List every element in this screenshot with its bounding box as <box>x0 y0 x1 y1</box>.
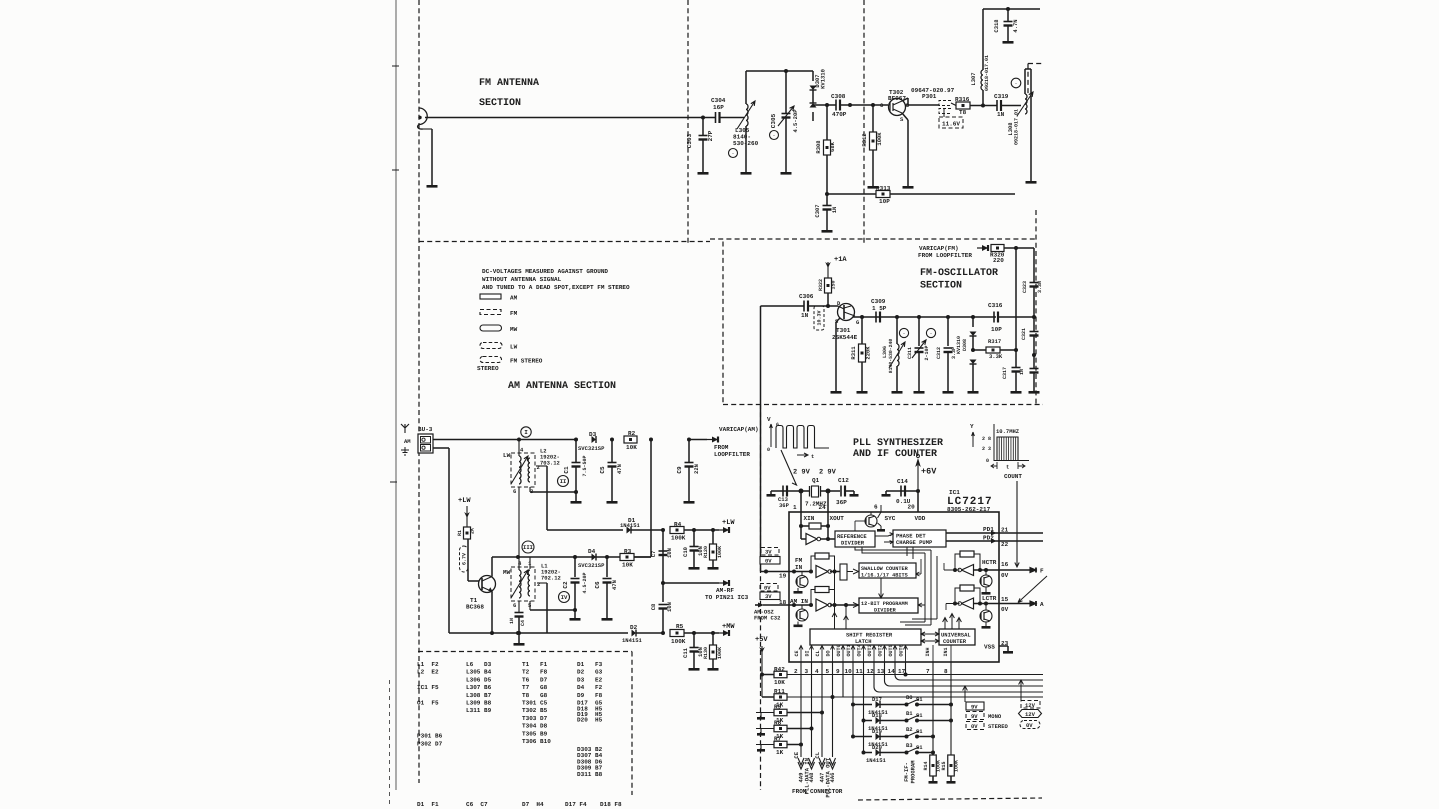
svg-text:MW: MW <box>510 326 518 333</box>
svg-text:P302 D7: P302 D7 <box>417 740 443 747</box>
svg-text:C316: C316 <box>988 302 1003 309</box>
wire: reference divider to phase detector with arrows <box>875 533 893 536</box>
svg-text:C308: C308 <box>831 93 846 100</box>
svg-text:C318: C318 <box>993 19 1000 33</box>
wire: FM antenna feed line <box>425 117 703 119</box>
svg-text:4: 4 <box>518 560 522 567</box>
ground (C14) <box>886 490 889 492</box>
svg-text:STEREO: STEREO <box>988 723 1009 730</box>
svg-text:L306 D5: L306 D5 <box>466 676 492 683</box>
svg-text:C10: C10 <box>682 547 689 557</box>
svg-text:1N: 1N <box>801 312 809 319</box>
svg-text:A: A <box>1040 601 1044 608</box>
wire: +6V to VDD pin 20 <box>916 489 920 493</box>
HCTR feedback resistor <box>960 551 974 557</box>
svg-text:21: 21 <box>1001 527 1009 534</box>
svg-text:OUT3: OUT3 <box>867 644 873 656</box>
diagonal annotation line near pin 15 <box>1018 576 1047 603</box>
svg-text:LW: LW <box>510 344 518 351</box>
wire: L308 tank to ground <box>1024 69 1026 94</box>
PHASE DET / CHARGE PUMP block <box>893 530 946 547</box>
pin 17 column <box>905 662 907 674</box>
svg-text:R1: R1 <box>457 530 463 536</box>
svg-text:F: F <box>1040 568 1044 575</box>
capacitor C321 column <box>1032 315 1036 319</box>
svg-text:SECTION: SECTION <box>920 281 962 292</box>
svg-text:WITHOUT ANTENNA SIGNAL: WITHOUT ANTENNA SIGNAL <box>482 276 562 283</box>
svg-text:C317: C317 <box>1002 367 1008 379</box>
svg-text:22: 22 <box>1001 541 1009 548</box>
svg-text:+MW: +MW <box>722 623 735 631</box>
svg-text:T305 B9: T305 B9 <box>522 730 548 737</box>
svg-text:AM ANTENNA SECTION: AM ANTENNA SECTION <box>508 381 616 392</box>
diode D17 1N4151 with switch B0 <box>851 703 855 707</box>
+LW supply arrow <box>713 529 719 531</box>
svg-text:G: G <box>856 319 860 326</box>
wire: BU-3 return to MW switch rail <box>433 447 449 449</box>
count time arrows <box>991 462 1025 469</box>
level box 12V dashed <box>1021 701 1040 709</box>
svg-text:SVC321SP: SVC321SP <box>578 445 605 452</box>
test voltage dashed bubble 6.7V <box>460 546 469 572</box>
border: right dashed edge of parts-location table <box>631 652 633 796</box>
svg-text:470P: 470P <box>832 111 847 118</box>
wire: L305 top to tank rail <box>745 71 747 104</box>
diode D2 1N4151 (MW band switch) <box>632 630 637 637</box>
pin 10 column down to D17/D19 ladder <box>852 662 854 737</box>
svg-text:+LW: +LW <box>458 497 471 505</box>
wire: supply rail top <box>983 8 1040 10</box>
svg-text:FROM C32: FROM C32 <box>754 615 780 622</box>
ground (C12) <box>850 494 859 497</box>
svg-text:R130: R130 <box>703 647 709 659</box>
svg-text:0V: 0V <box>1026 722 1033 729</box>
svg-text:KV1310: KV1310 <box>820 69 827 89</box>
svg-text:LOOPFILTER: LOOPFILTER <box>714 451 750 458</box>
svg-text:C306: C306 <box>799 293 814 300</box>
svg-text:D9 F8: D9 F8 <box>577 692 603 699</box>
svg-text:C312: C312 <box>936 347 942 359</box>
trimmer capacitor C305 4.5-20P <box>784 69 788 73</box>
legend symbol: LW dashed stadium <box>480 343 502 349</box>
svg-text:T301 C5: T301 C5 <box>522 700 548 707</box>
svg-text:47N: 47N <box>616 464 623 474</box>
svg-text:10P: 10P <box>991 326 1002 333</box>
svg-text:1/16.1/17 4BITS: 1/16.1/17 4BITS <box>861 573 908 579</box>
capacitor C4 1N <box>515 613 524 617</box>
svg-text:C9: C9 <box>676 466 683 474</box>
reference waveform square pulses <box>776 426 829 449</box>
svg-text:C303: C303 <box>686 133 693 148</box>
svg-text:I: I <box>524 429 528 436</box>
svg-text:SVC321SP: SVC321SP <box>578 562 605 569</box>
svg-text:1N4151: 1N4151 <box>620 522 641 529</box>
transistor T301 2SK544E (FM oscillator FET) <box>838 304 855 321</box>
LCTR output driver inverter <box>962 598 974 609</box>
svg-text:R14: R14 <box>923 761 929 770</box>
svg-text:PD1: PD1 <box>983 526 994 533</box>
svg-text:C4: C4 <box>520 620 526 626</box>
svg-text:MONO: MONO <box>988 713 1002 720</box>
capacitor C5 47N <box>610 438 614 442</box>
svg-text:OUT1: OUT1 <box>846 644 852 656</box>
svg-text:O1 F5: O1 F5 <box>417 700 439 707</box>
level box 12V solid stadium <box>1019 710 1042 718</box>
legend symbol: MW solid stadium <box>480 325 502 331</box>
svg-text:12V: 12V <box>1025 711 1036 718</box>
svg-text:·: · <box>772 133 775 139</box>
arrow into swallow counter <box>847 569 859 574</box>
varactor diode D307 KV1310 (dual) <box>812 71 814 81</box>
svg-text:1K: 1K <box>776 749 784 756</box>
svg-text:TO PIN21 IC3: TO PIN21 IC3 <box>705 594 749 601</box>
svg-text:DIVIDER: DIVIDER <box>874 608 897 614</box>
svg-text:9V: 9V <box>971 713 978 720</box>
svg-text:DIVIDER: DIVIDER <box>841 540 865 547</box>
bus bend column 13 <box>885 662 1044 686</box>
svg-text:12V: 12V <box>1025 702 1036 709</box>
svg-text:3V: 3V <box>765 593 772 600</box>
inductor L305 8140-530-260 (tuned, tapped) <box>746 104 748 126</box>
svg-text:10K: 10K <box>622 562 633 569</box>
alignment point circle (e) near C305 <box>770 131 779 140</box>
svg-text:XIN: XIN <box>804 515 815 522</box>
svg-text:09218-017.01: 09218-017.01 <box>1014 109 1020 145</box>
level box 9V dashed + MONO <box>966 712 984 720</box>
svg-text:II: II <box>560 478 567 485</box>
svg-text:2 9V: 2 9V <box>819 469 837 477</box>
internal feedback bus under phase detector <box>855 547 931 559</box>
svg-text:4A6: 4A6 <box>829 773 836 783</box>
ground (VSS) <box>1003 651 1013 654</box>
svg-text:L309 B8: L309 B8 <box>466 700 492 707</box>
wire: C306 rail down PLL border to FM IN <box>760 306 762 572</box>
capacitor C307 1N to ground <box>825 192 829 196</box>
svg-text:100K: 100K <box>671 535 686 542</box>
svg-text:S: S <box>900 116 904 123</box>
inductor L307 09218-017.01 (RF choke to supply) <box>982 90 984 106</box>
wire: vertical from VARICAP line to R3 (MW) line <box>650 440 652 558</box>
svg-text:D3 E2: D3 E2 <box>577 676 603 683</box>
left rail legend dashed box 0V (AM) <box>760 584 778 592</box>
wire: buffer feed from FM-osc to PLL FM IN <box>761 305 805 307</box>
resistor R311 220K <box>860 315 864 319</box>
svg-text:+1A: +1A <box>834 256 847 264</box>
svg-text:1N4151: 1N4151 <box>866 757 887 764</box>
svg-text:4A8: 4A8 <box>808 772 815 783</box>
capacitor C12 36P <box>826 489 831 494</box>
bus line 1 (pin 17 / R42) <box>787 674 1043 676</box>
svg-text:4A7: 4A7 <box>819 773 826 783</box>
svg-text:L311 B9: L311 B9 <box>466 707 492 714</box>
connector arrows to 4A9/4A8/4A7/4A6 <box>798 762 804 769</box>
diode D1 1N4151 (LW band switch) <box>547 529 623 531</box>
svg-text:INH: INH <box>925 647 931 656</box>
svg-text:C2: C2 <box>562 581 569 589</box>
svg-text:P301: P301 <box>922 93 937 100</box>
svg-text:L308 B7: L308 B7 <box>466 692 492 699</box>
crystal circuit: capacitor C13 36P <box>774 490 801 492</box>
svg-text:D1 F3: D1 F3 <box>577 661 603 668</box>
svg-text:·: · <box>731 151 734 157</box>
svg-text:R15: R15 <box>941 761 947 770</box>
svg-text:D2 G3: D2 G3 <box>577 669 603 676</box>
svg-text:R120: R120 <box>703 546 709 558</box>
svg-text:2 3: 2 3 <box>982 446 991 452</box>
svg-text:D311 B8: D311 B8 <box>577 771 603 778</box>
varicap AM control input arrow from loopfilter <box>689 439 707 441</box>
svg-text:0V: 0V <box>971 723 978 730</box>
capacitor C303 27P (shunt to ground) <box>702 118 704 136</box>
wire: FM oscillator tank rail <box>853 316 996 318</box>
resistor R42 10K (pull-up) <box>760 673 764 677</box>
test voltage dashed box 11.6V <box>939 117 963 128</box>
svg-text:B1: B1 <box>906 710 913 717</box>
svg-text:IN1: IN1 <box>943 647 949 656</box>
svg-text:OUT5: OUT5 <box>888 644 894 656</box>
svg-text:15: 15 <box>1001 596 1009 603</box>
FM input amp feedback resistor <box>815 553 829 559</box>
svg-text:47N: 47N <box>611 580 618 590</box>
resistor R120 100K <box>712 530 714 544</box>
svg-text:L6 D3: L6 D3 <box>466 661 492 668</box>
border: mid-RF / RF-amp dashed divider <box>863 0 865 245</box>
SYC monitor transistor <box>865 515 877 527</box>
svg-text:AM: AM <box>404 438 411 445</box>
wire: AGC line along bottom of RF stage <box>827 193 1015 195</box>
resistor R14 100K <box>930 755 937 776</box>
svg-text:MW: MW <box>503 569 511 576</box>
FM input mosfet clamp <box>796 576 808 588</box>
border: sheet edge solid line at far left <box>395 0 397 790</box>
test voltage dashed box 10.3V <box>814 306 824 330</box>
varactor diode D4 SVC321SP <box>592 554 597 561</box>
svg-text:3.3N: 3.3N <box>1037 281 1043 293</box>
left rail legend dashed box 3V (FM) <box>761 548 779 556</box>
wire: varactor node to C308 and R308 <box>813 104 836 106</box>
border: right edge of AM antenna legend box <box>722 242 724 406</box>
svg-text:COUNT: COUNT <box>1004 473 1022 480</box>
circled node III <box>522 541 534 553</box>
svg-text:702.12: 702.12 <box>541 575 561 582</box>
buffer gate box after FM amp <box>840 564 847 580</box>
wire: BU-3 hot terminal to LW tank / D3 line <box>433 439 576 441</box>
svg-text:C309: C309 <box>871 298 886 305</box>
svg-text:SWALLOW COUNTER: SWALLOW COUNTER <box>861 566 909 572</box>
svg-text:10.3V: 10.3V <box>817 310 823 325</box>
svg-text:STEREO: STEREO <box>477 365 499 372</box>
svg-text:Q1: Q1 <box>812 477 820 484</box>
border: faint dashed remnant at bottom-left sheet edge <box>389 680 391 805</box>
svg-text:C321: C321 <box>1021 328 1027 340</box>
PD2 output pin 22 <box>946 540 1043 542</box>
AM input amp feedback resistor <box>815 587 829 593</box>
svg-text:100K: 100K <box>876 132 883 146</box>
svg-text:FROM LOOPFILTER: FROM LOOPFILTER <box>918 252 972 259</box>
svg-text:2: 2 <box>537 581 540 588</box>
FM IN internal node <box>764 570 768 574</box>
wire: COUNT line down to IF counter input (pin16 net) <box>1016 481 1018 567</box>
legend symbol: FM dashed rectangle <box>480 310 501 315</box>
border: top-right dashed corner near L308 <box>1028 63 1043 65</box>
svg-text:2-10P: 2-10P <box>924 345 930 360</box>
svg-text:12-BIT PROGRAMM: 12-BIT PROGRAMM <box>861 601 908 607</box>
svg-text:6: 6 <box>513 488 516 495</box>
svg-text:OUT2: OUT2 <box>877 644 883 656</box>
circled node II <box>558 476 569 487</box>
svg-text:·: · <box>902 331 905 337</box>
capacitor C318 4.7N (supply decoupling) <box>1006 7 1010 11</box>
svg-text:1N4151: 1N4151 <box>622 637 643 644</box>
svg-text:LATCH: LATCH <box>855 638 872 645</box>
wire: T1 emitter to switch rail <box>491 592 493 634</box>
svg-text:OUT4: OUT4 <box>856 644 862 656</box>
alignment circle (f) near C312 <box>926 328 935 337</box>
ground (antenna) <box>427 185 438 188</box>
svg-text:VARICAP(AM): VARICAP(AM) <box>719 426 759 433</box>
svg-text:L1 F2: L1 F2 <box>417 661 439 668</box>
svg-text:·: · <box>1014 81 1017 87</box>
node: varicap AM line junctions <box>649 438 653 442</box>
AM IF output arrow (pin 15) <box>1030 601 1036 606</box>
svg-text:FM: FM <box>510 310 518 317</box>
svg-text:D1 F1: D1 F1 <box>417 801 439 808</box>
svg-text:AND TUNED TO A DEAD SPOT,EXCEP: AND TUNED TO A DEAD SPOT,EXCEPT FM STERE… <box>482 284 630 291</box>
diode D18 1N4151 with switch B1 <box>862 719 866 723</box>
AM-OSZ input arrow from C32 <box>758 603 764 608</box>
svg-text:6: 6 <box>874 504 878 511</box>
svg-text:7.5-50P: 7.5-50P <box>582 455 588 476</box>
SHIFT REGISTER LATCH block <box>810 629 921 645</box>
svg-text:D2: D2 <box>630 624 638 631</box>
transistor T1 BC368 (AM RF amp) <box>479 576 496 593</box>
LCTR output mosfet <box>980 610 992 622</box>
left rail legend solid box 3V (AM) <box>760 592 780 600</box>
border: margin tick marks at sheet left edge <box>392 65 399 67</box>
inductor L308 09218-017.01 (tuned output) <box>1025 94 1027 114</box>
svg-text:FROM: FROM <box>714 444 729 451</box>
wire: MW tap (pin 2) down to D2 rail <box>537 582 547 584</box>
svg-text:0: 0 <box>986 458 989 464</box>
svg-text:XOUT: XOUT <box>830 515 845 522</box>
node: varicap FM distribution <box>1014 246 1018 250</box>
pin columns below IC <box>800 662 802 757</box>
wire: T302 drain to P301 link <box>902 98 908 101</box>
svg-text:9V: 9V <box>971 704 978 711</box>
svg-text:220: 220 <box>993 257 1004 264</box>
svg-text:t: t <box>1006 464 1009 471</box>
svg-text:D17: D17 <box>872 696 882 703</box>
capacitor C316 10P (tank output) <box>994 312 998 323</box>
svg-text:T1 F1: T1 F1 <box>522 661 548 668</box>
svg-text:COUNTER: COUNTER <box>943 638 967 645</box>
wire: T301 source to ground <box>836 318 840 322</box>
svg-text:D308: D308 <box>962 339 968 351</box>
resistor R313 10P on AGC line <box>876 191 890 198</box>
svg-text:D20: D20 <box>872 744 882 751</box>
svg-text:1N: 1N <box>997 111 1005 118</box>
pin 11 column down to D18/D20 ladder <box>863 662 865 753</box>
svg-text:FM-OSCILLATOR: FM-OSCILLATOR <box>920 268 998 279</box>
arrows from universal counter up to output latches <box>943 618 948 630</box>
svg-text:FM ANTENNA: FM ANTENNA <box>479 78 539 89</box>
svg-text:27P: 27P <box>707 130 714 141</box>
svg-text:VARICAP(FM): VARICAP(FM) <box>919 245 959 252</box>
trimmer capacitor C311 2-10P <box>917 315 921 319</box>
capacitor C306 1N (osc output coupling) <box>804 301 808 312</box>
svg-text:C12: C12 <box>838 477 849 484</box>
wire: LW pin6 down to MW transformer <box>518 487 520 557</box>
svg-text:6: 6 <box>513 602 516 609</box>
svg-text:T303 D7: T303 D7 <box>522 715 548 722</box>
svg-text:FM: FM <box>795 557 803 564</box>
svg-text:C5: C5 <box>599 466 606 474</box>
AM IN internal node <box>792 603 796 607</box>
svg-text:T2 F8: T2 F8 <box>522 669 548 676</box>
svg-text:L2 E2: L2 E2 <box>417 669 439 676</box>
border: horizontal dashed line top of FM-oscillator section <box>710 238 1036 240</box>
alignment point circle (a) near L305 <box>729 149 738 158</box>
wire: MW line D4 row <box>518 556 651 558</box>
varicap FM input arrow <box>977 245 988 251</box>
circled node I <box>521 427 531 437</box>
svg-text:C319: C319 <box>994 93 1009 100</box>
svg-text:T302 B5: T302 B5 <box>522 707 548 714</box>
svg-text:68K: 68K <box>829 141 836 152</box>
svg-text:C6 C7: C6 C7 <box>466 801 488 808</box>
svg-text:CL: CL <box>814 751 821 758</box>
svg-text:R311: R311 <box>850 346 857 360</box>
svg-text:LW: LW <box>503 452 511 459</box>
crystal Q1 7.2MHZ <box>799 489 804 494</box>
REFERENCE DIVIDER block <box>835 531 875 547</box>
pin 7 column down to R14 <box>932 662 934 755</box>
svg-text:DI: DI <box>804 650 810 656</box>
svg-text:220K: 220K <box>865 346 872 360</box>
svg-text:C307: C307 <box>814 204 821 217</box>
svg-text:T301: T301 <box>836 327 851 334</box>
bus line 5 (R11 / serial data) <box>787 696 1043 698</box>
border: left dashed edge of schematic sections <box>418 0 420 783</box>
svg-text:+LW: +LW <box>722 519 735 527</box>
border: FM antenna / mid-RF dashed divider <box>687 0 689 245</box>
svg-text:B3: B3 <box>906 742 913 749</box>
svg-text:T6 D7: T6 D7 <box>522 676 548 683</box>
svg-text:BU-3: BU-3 <box>418 426 433 433</box>
wire: varicap FM to R317/C317 node <box>1015 248 1017 350</box>
svg-text:D19: D19 <box>872 728 882 735</box>
internal stubs from shift register to bottom pins <box>800 645 802 662</box>
svg-text:R312: R312 <box>861 133 868 146</box>
wire: AM-RF detector column (C7/C8) <box>662 530 664 602</box>
svg-text:SECTION: SECTION <box>479 98 521 109</box>
svg-text:100K: 100K <box>671 638 686 645</box>
svg-text:0V: 0V <box>765 558 772 565</box>
svg-text:VSS: VSS <box>984 644 995 651</box>
svg-text:100K: 100K <box>717 647 723 659</box>
svg-text:FROM CONNECTOR: FROM CONNECTOR <box>792 788 843 795</box>
svg-text:PD2: PD2 <box>983 535 994 542</box>
svg-text:L305 B4: L305 B4 <box>466 669 492 676</box>
wire: T302 source to ground <box>902 113 908 120</box>
svg-text:IC1: IC1 <box>949 489 960 496</box>
capacitor C6 47N <box>606 557 608 577</box>
svg-text:V: V <box>767 416 771 423</box>
varactor D308 KV1310 (osc tuning) <box>971 315 975 319</box>
+MW supply arrow <box>713 632 719 634</box>
svg-text:1N: 1N <box>509 618 515 624</box>
svg-text:C6: C6 <box>594 581 601 589</box>
